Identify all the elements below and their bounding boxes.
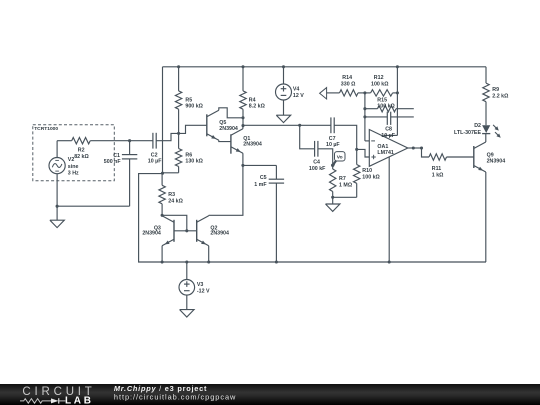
svg-text:R15: R15 [377, 97, 387, 103]
svg-text:100 kF: 100 kF [309, 166, 326, 172]
svg-text:V3: V3 [197, 282, 204, 288]
svg-text:R2: R2 [78, 148, 85, 154]
svg-text:R5: R5 [185, 97, 192, 103]
svg-text:24 kΩ: 24 kΩ [168, 199, 183, 205]
svg-text:V2: V2 [68, 157, 75, 163]
svg-text:82 kΩ: 82 kΩ [74, 154, 89, 160]
svg-text:V4: V4 [293, 87, 300, 93]
svg-text:330 Ω: 330 Ω [341, 82, 356, 88]
svg-text:Mr.Chippy / e3 project: Mr.Chippy / e3 project [114, 384, 207, 393]
svg-text:C8: C8 [385, 127, 392, 133]
svg-text:10 µF: 10 µF [326, 142, 340, 148]
svg-text:900 kΩ: 900 kΩ [185, 104, 203, 110]
svg-text:LAB: LAB [65, 395, 94, 405]
svg-text:2.2 kΩ: 2.2 kΩ [492, 94, 509, 100]
svg-text:LTL-307EE: LTL-307EE [454, 130, 481, 136]
svg-text:R3: R3 [168, 192, 175, 198]
svg-text:LM741: LM741 [377, 150, 394, 156]
svg-text:8.2 kΩ: 8.2 kΩ [249, 104, 266, 110]
svg-text:R9: R9 [492, 87, 499, 93]
svg-text:-12 V: -12 V [197, 288, 210, 294]
svg-text:2N3904: 2N3904 [243, 141, 262, 147]
svg-text:C1: C1 [113, 153, 120, 159]
svg-text:2N3904: 2N3904 [142, 231, 161, 237]
svg-text:R12: R12 [374, 75, 384, 81]
svg-text:3 Hz: 3 Hz [68, 170, 79, 176]
svg-text:http://circuitlab.com/cpgpcaw: http://circuitlab.com/cpgpcaw [114, 393, 236, 402]
svg-text:1 mF: 1 mF [254, 182, 267, 188]
svg-text:100 kΩ: 100 kΩ [377, 103, 395, 109]
svg-text:C4: C4 [313, 160, 320, 166]
svg-text:D2: D2 [474, 123, 481, 129]
svg-text:2N3904: 2N3904 [210, 231, 229, 237]
svg-text:TCRT1000: TCRT1000 [34, 126, 58, 132]
svg-text:100 kΩ: 100 kΩ [362, 174, 380, 180]
svg-text:10 µF: 10 µF [148, 159, 162, 165]
svg-text:R6: R6 [185, 152, 192, 158]
svg-text:Vo: Vo [337, 155, 343, 161]
svg-text:R7: R7 [339, 176, 346, 182]
svg-text:R4: R4 [249, 97, 256, 103]
svg-text:R11: R11 [432, 166, 441, 172]
svg-text:12 V: 12 V [293, 93, 304, 99]
svg-text:2N3904: 2N3904 [487, 159, 506, 165]
svg-text:R14: R14 [342, 75, 352, 81]
svg-text:2N3904: 2N3904 [219, 126, 238, 132]
svg-text:C7: C7 [329, 136, 336, 142]
svg-text:130 kΩ: 130 kΩ [185, 159, 203, 165]
svg-text:1 kΩ: 1 kΩ [432, 172, 444, 178]
svg-text:10 µF: 10 µF [381, 133, 395, 139]
svg-text:100 kΩ: 100 kΩ [371, 82, 389, 88]
svg-text:500 nF: 500 nF [104, 159, 122, 165]
svg-text:C2: C2 [151, 152, 158, 158]
svg-text:sine: sine [68, 164, 79, 170]
svg-text:C5: C5 [260, 175, 267, 181]
svg-text:1 MΩ: 1 MΩ [339, 183, 353, 189]
svg-text:R10: R10 [362, 168, 372, 174]
